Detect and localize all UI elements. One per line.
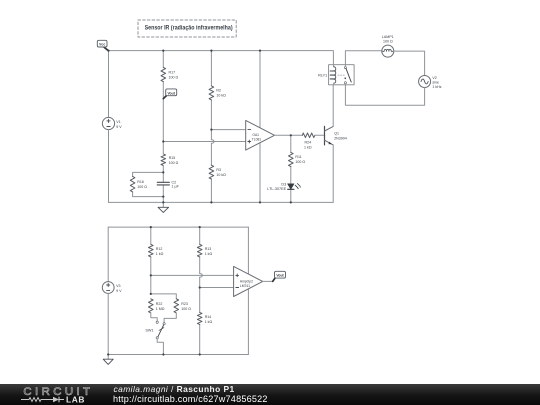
svg-text:R22: R22 [156, 302, 163, 306]
wire V1 top [108, 51, 110, 118]
svg-text:R23: R23 [181, 302, 188, 306]
svg-text:10 kΩ: 10 kΩ [216, 94, 226, 98]
resistor R23 100 Ω [174, 299, 191, 313]
svg-text:R16: R16 [137, 180, 144, 184]
svg-text:AmpOp2: AmpOp2 [240, 279, 253, 283]
op-amp AmpOp2 LM741 [234, 266, 263, 296]
wire R23 bottom to switch throw [164, 313, 176, 323]
relay RLY1 [318, 65, 354, 85]
junction dots (top circuit) [107, 50, 292, 204]
svg-text:D3: D3 [281, 182, 286, 186]
svg-text:R14: R14 [205, 315, 212, 319]
wire hop (R2/R3 line over + input wire) [211, 140, 214, 144]
resistor R15 100 Ω [161, 154, 179, 166]
wire lamp to V2 [394, 51, 425, 75]
wire top rail (lower circuit) [108, 226, 248, 228]
CircuitLab logo [0, 384, 110, 405]
wire R12 branch [150, 227, 152, 294]
svg-text:V3: V3 [116, 284, 120, 288]
svg-text:1 µF: 1 µF [172, 185, 180, 189]
svg-text:Vcc: Vcc [99, 43, 105, 47]
svg-text:1 kHz: 1 kHz [432, 85, 441, 89]
svg-text:V1: V1 [116, 120, 120, 124]
lamp LAMP1 100 Ω [382, 35, 394, 57]
svg-text:1 kΩ: 1 kΩ [156, 252, 164, 256]
svg-text:9 V: 9 V [116, 289, 122, 293]
resistor R11 100 Ω [289, 152, 306, 166]
svg-text:LAB: LAB [66, 395, 85, 405]
resistor R16 100 Ω [130, 176, 147, 192]
svg-text:R24: R24 [305, 141, 312, 145]
svg-text:LTL-307EE: LTL-307EE [267, 187, 286, 191]
svg-text:1 kΩ: 1 kΩ [205, 320, 213, 324]
wire op-amp inverting input [211, 129, 245, 131]
svg-text:OA1: OA1 [252, 133, 259, 137]
wire relay switch to lamp [345, 51, 381, 65]
wire AmpOp2 output [263, 280, 273, 282]
svg-text:R11: R11 [295, 155, 301, 159]
svg-text:100 Ω: 100 Ω [295, 160, 305, 164]
svg-text:10 kΩ: 10 kΩ [216, 173, 226, 177]
voltage source V2 sine 1 kHz [419, 76, 442, 89]
switch SW1 [145, 321, 165, 339]
transistor Q1 2N3904 [325, 126, 347, 144]
svg-text:1 kΩ: 1 kΩ [304, 145, 312, 149]
wire R22 bottom to switch throw [151, 313, 157, 321]
svg-text:100 Ω: 100 Ω [169, 161, 179, 165]
voltage source V3 9 V [102, 282, 122, 294]
resistor R3 10 kΩ [209, 165, 226, 179]
wire R11 branch [290, 135, 292, 202]
svg-text:Vout: Vout [276, 274, 284, 278]
op-amp OA1 TL081 [246, 120, 275, 150]
wire op-amp output [275, 134, 303, 136]
resistor R12 1 kΩ [149, 244, 164, 257]
wire R15 to C2 node [162, 142, 164, 173]
wire R22/R23 top split [151, 294, 177, 299]
svg-text:100 Ω: 100 Ω [169, 76, 179, 80]
wire AmpOp2 V+ supply [247, 227, 249, 274]
svg-text:TL081: TL081 [252, 138, 262, 142]
resistor R2 10 kΩ [209, 86, 226, 100]
wire bottom rail [109, 201, 334, 203]
svg-text:1 kΩ: 1 kΩ [205, 252, 213, 256]
node flag Vcc [97, 40, 108, 51]
wire op-amp V+ supply [259, 51, 261, 128]
wire Q1 collector to relay coil [332, 85, 334, 127]
svg-text:R2: R2 [216, 89, 221, 93]
svg-text:SW1: SW1 [145, 329, 153, 333]
annotation: Sensor IR (radiação infravermelha) [138, 20, 236, 37]
wire top rail Vcc to relay coil [109, 51, 334, 65]
svg-text:100 Ω: 100 Ω [181, 307, 191, 311]
svg-text:LAMP1: LAMP1 [382, 35, 394, 39]
svg-text:sine: sine [432, 80, 439, 84]
node flag Vout (lower circuit) [273, 271, 286, 281]
svg-text:R17: R17 [169, 71, 176, 75]
wire V2 return to relay switch [345, 85, 424, 106]
LED D3 LTL-307EE [267, 182, 301, 191]
capacitor C2 1 µF [157, 181, 179, 189]
resistor R14 1 kΩ [197, 312, 212, 324]
wire V3 top [107, 227, 109, 282]
wire Q1 emitter to bottom rail [332, 145, 334, 203]
wire R24 to Q1 base [315, 134, 325, 136]
wire AmpOp2 V- supply [247, 289, 249, 355]
svg-text:R15: R15 [169, 156, 176, 160]
wire SW1 common to bottom rail [157, 339, 163, 355]
svg-text:9 V: 9 V [116, 125, 122, 129]
svg-text:RLY1: RLY1 [318, 73, 327, 77]
wire AmpOp2 inverting input [200, 287, 234, 289]
wire R13 branch [199, 227, 201, 354]
svg-text:R12: R12 [156, 247, 163, 251]
svg-text:100 Ω: 100 Ω [137, 185, 147, 189]
svg-text:V2: V2 [432, 76, 436, 80]
footer bar [0, 384, 540, 405]
resistor R13 1 kΩ [197, 244, 212, 257]
resistor R17 100 Ω [161, 67, 178, 81]
node flag Vout (top circuit) [163, 89, 176, 99]
ground (lower circuit) [103, 355, 113, 365]
resistor R24 1 kΩ [302, 133, 315, 149]
wire op-amp V- supply [259, 143, 261, 203]
wire R2 branch [210, 51, 212, 203]
svg-text:R3: R3 [216, 168, 221, 172]
svg-text:Sensor IR (radiação infraverme: Sensor IR (radiação infravermelha) [145, 25, 233, 31]
wire AmpOp2 non-inverting input [151, 274, 234, 276]
wire bottom rail (lower circuit) [108, 354, 248, 356]
ground (top circuit) [158, 202, 169, 212]
voltage source V1 9 V [102, 117, 122, 129]
svg-text:LM741: LM741 [240, 284, 250, 288]
svg-text:1 MΩ: 1 MΩ [156, 307, 165, 311]
svg-text:2N3904: 2N3904 [334, 136, 347, 140]
wire op-amp non-inverting input [163, 141, 245, 143]
resistor R22 1 MΩ [149, 299, 165, 313]
wire V3 bottom [107, 293, 109, 354]
svg-text:Q1: Q1 [334, 132, 339, 136]
svg-text:100 Ω: 100 Ω [383, 40, 393, 44]
wire V1 bottom [108, 130, 110, 203]
wire R17 branch [162, 51, 164, 142]
svg-text:R13: R13 [205, 247, 212, 251]
svg-text:Vout: Vout [168, 91, 176, 95]
wire C2/R16 parallel net [133, 172, 164, 202]
junction dots (lower circuit) [107, 226, 201, 356]
wire hop (R13 line over + input wire) [200, 274, 203, 278]
